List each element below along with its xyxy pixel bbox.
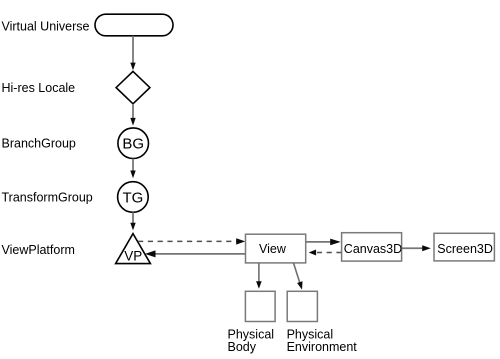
svg-text:TG: TG	[122, 189, 143, 206]
wire TransformGroup to ViewPlatform	[132, 212, 134, 225]
node TG circle	[118, 182, 149, 213]
wire View to PhysicalEnvironment	[294, 263, 301, 284]
svg-text:Environment: Environment	[287, 340, 358, 354]
svg-text:BranchGroup: BranchGroup	[2, 137, 76, 151]
node VP triangle	[116, 234, 151, 264]
svg-text:TransformGroup: TransformGroup	[2, 191, 93, 205]
wire Canvas3D to Screen3D	[402, 247, 423, 249]
wire Locale to BranchGroup	[132, 104, 134, 120]
dashed wire VP to View	[138, 240, 237, 242]
node PhysicalBody square	[245, 291, 275, 321]
svg-text:Canvas3D: Canvas3D	[344, 242, 402, 256]
wire View to Canvas3D	[306, 241, 331, 243]
node Screen3D box	[434, 233, 494, 261]
arrowhead into BranchGroup	[130, 118, 135, 126]
arrowhead into VP (left pointing)	[145, 250, 156, 257]
arrowhead into View (right pointing)	[236, 238, 245, 244]
svg-text:Virtual Universe: Virtual Universe	[2, 19, 90, 33]
svg-text:Screen3D: Screen3D	[437, 242, 493, 256]
arrowhead into ViewPlatform	[130, 223, 135, 231]
node View box	[246, 234, 306, 263]
node Canvas3D box	[342, 233, 402, 261]
node PhysicalEnvironment square	[287, 291, 317, 321]
svg-text:BG: BG	[122, 136, 144, 153]
wire VirtualUniverse to Locale	[132, 36, 134, 65]
svg-text:Hi-res Locale: Hi-res Locale	[2, 81, 76, 95]
svg-text:Body: Body	[228, 340, 257, 354]
arrowhead into PhysicalEnvironment	[297, 281, 302, 289]
node Virtual Universe (stadium)	[95, 14, 173, 36]
arrowhead into Screen3D (right pointing)	[422, 245, 431, 251]
arrowhead into PhysicalBody	[256, 281, 262, 289]
svg-text:VP: VP	[124, 248, 142, 263]
svg-text:View: View	[259, 242, 287, 256]
arrowhead into Locale	[130, 63, 135, 71]
arrowhead into View (left pointing)	[309, 250, 316, 256]
wire View to VP	[155, 253, 246, 255]
svg-text:ViewPlatform: ViewPlatform	[2, 243, 75, 257]
arrowhead into Canvas3D (right pointing)	[330, 239, 341, 246]
node Hi-res Locale (diamond)	[116, 71, 150, 103]
dashed wire Canvas3D to View	[317, 252, 342, 254]
node BG circle	[118, 128, 149, 159]
wire BranchGroup to TransformGroup	[132, 159, 134, 173]
arrowhead into TransformGroup	[130, 171, 135, 179]
wire View to PhysicalBody	[258, 263, 260, 283]
